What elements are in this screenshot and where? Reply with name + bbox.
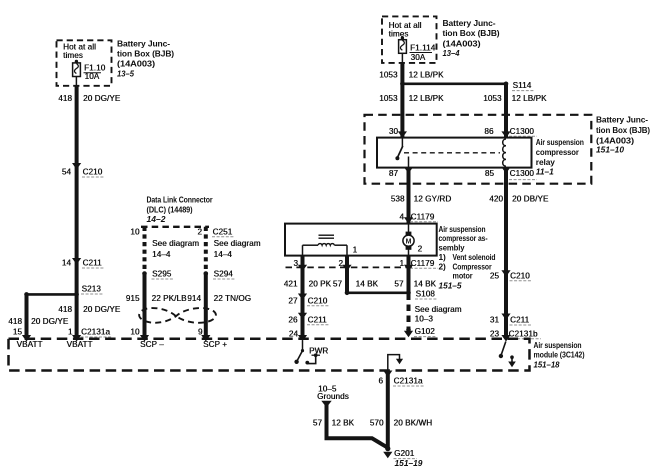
label Hot at all times bbox=[63, 42, 96, 60]
svg-text:C211: C211 bbox=[510, 316, 530, 325]
value label 57 14 BK (right) bbox=[394, 280, 436, 289]
svg-text:12 LB/PK: 12 LB/PK bbox=[409, 71, 444, 80]
vent solenoid coil L1 bbox=[303, 244, 348, 246]
svg-text:151–19: 151–19 bbox=[395, 458, 423, 468]
switch inside module at pin 24 bbox=[294, 341, 304, 364]
label See diagram 14-4 (right) bbox=[214, 239, 261, 259]
svg-text:23: 23 bbox=[490, 329, 500, 338]
svg-text:Battery Junc-: Battery Junc- bbox=[443, 18, 496, 28]
svg-text:S108: S108 bbox=[416, 290, 436, 299]
svg-text:22 TN/OG: 22 TN/OG bbox=[214, 294, 252, 303]
svg-text:11–1: 11–1 bbox=[536, 167, 554, 177]
value label 418 20 DG/YE (below S213) bbox=[58, 305, 121, 314]
svg-text:13–5: 13–5 bbox=[117, 69, 134, 79]
ground G201 bbox=[383, 446, 423, 468]
wire: solenoid right leg to pin 2 bbox=[346, 245, 348, 255]
value label 421 20 PK bbox=[284, 280, 332, 289]
svg-text:14–2: 14–2 bbox=[147, 214, 166, 224]
svg-text:2: 2 bbox=[197, 227, 202, 236]
relay mechanical link (dashed) bbox=[404, 152, 500, 154]
switch inside module at pin 23 bbox=[499, 342, 506, 359]
pin 6 connector C2131a out of module bbox=[378, 371, 425, 387]
wire: S108 to ground G102 (dashed) bbox=[407, 294, 411, 330]
svg-text:VBATT: VBATT bbox=[17, 340, 43, 349]
svg-text:C1179: C1179 bbox=[411, 212, 435, 221]
svg-text:2: 2 bbox=[338, 259, 343, 268]
svg-text:151–10: 151–10 bbox=[596, 144, 624, 154]
pin 1 connector C2131a into module bbox=[68, 328, 112, 342]
relay coil bbox=[503, 139, 506, 166]
svg-text:20 DB/YE: 20 DB/YE bbox=[512, 194, 549, 203]
svg-text:C251: C251 bbox=[213, 227, 233, 236]
svg-text:570: 570 bbox=[370, 419, 384, 428]
relay switch contact bbox=[395, 138, 402, 161]
value label F1.10 / 10A bbox=[84, 64, 106, 82]
svg-text:10: 10 bbox=[130, 328, 140, 337]
wire 914 22 TN/OG bbox=[204, 274, 208, 339]
internal wire hook to pin 6 bbox=[388, 355, 403, 371]
svg-text:times: times bbox=[389, 29, 409, 38]
svg-text:C1179: C1179 bbox=[411, 259, 435, 268]
svg-text:1053: 1053 bbox=[483, 94, 502, 103]
svg-text:sembly: sembly bbox=[439, 243, 465, 253]
pin 85 connector C1300 bbox=[485, 167, 537, 180]
pin 24 into module bbox=[289, 329, 307, 341]
motor M: compressor motor bbox=[403, 224, 414, 256]
svg-text:SCP –: SCP – bbox=[140, 340, 164, 349]
svg-text:14 BK: 14 BK bbox=[414, 280, 437, 289]
value label F1.114 / 30A bbox=[410, 43, 436, 62]
svg-text:86: 86 bbox=[484, 127, 494, 136]
svg-text:S295: S295 bbox=[152, 270, 172, 279]
wire: S213 branch horizontal bbox=[27, 293, 77, 296]
value label 914 22 TN/OG bbox=[187, 294, 251, 303]
svg-text:26: 26 bbox=[288, 315, 298, 324]
svg-text:G102: G102 bbox=[415, 327, 436, 336]
pin 15 into module bbox=[13, 328, 31, 342]
svg-text:20 PK: 20 PK bbox=[309, 280, 332, 289]
svg-text:tion Box (BJB): tion Box (BJB) bbox=[117, 49, 174, 59]
value label 915 22 PK/LB bbox=[126, 294, 187, 303]
svg-text:6: 6 bbox=[378, 377, 383, 386]
terminal arrow inside module near pin 23 bbox=[508, 355, 516, 367]
connector C1179 dashed bus bbox=[286, 266, 415, 268]
svg-text:10–3: 10–3 bbox=[415, 315, 434, 324]
value label 418 20 DG/YE bbox=[58, 94, 121, 103]
svg-text:(14A003): (14A003) bbox=[117, 59, 155, 69]
splice S294 bbox=[204, 270, 237, 280]
svg-text:914: 914 bbox=[187, 294, 201, 303]
svg-text:Battery Junc-: Battery Junc- bbox=[596, 115, 648, 125]
svg-text:See diagram: See diagram bbox=[214, 239, 261, 248]
svg-text:S114: S114 bbox=[513, 81, 532, 90]
svg-text:12 LB/PK: 12 LB/PK bbox=[512, 94, 547, 103]
label See diagram 14-4 (left) bbox=[152, 239, 199, 259]
svg-text:compressor: compressor bbox=[536, 147, 580, 157]
wire 538 12 GY/RD bbox=[407, 170, 411, 224]
svg-text:14: 14 bbox=[62, 259, 72, 268]
svg-text:418: 418 bbox=[8, 317, 22, 326]
wire 418 20 DG/YE (branch to pin 15) bbox=[25, 294, 29, 338]
pin 1 of C1179 bbox=[399, 259, 438, 271]
svg-text:57: 57 bbox=[333, 280, 343, 289]
node: branch corner bbox=[24, 292, 29, 297]
svg-text:2: 2 bbox=[418, 245, 423, 254]
svg-text:57: 57 bbox=[313, 419, 323, 428]
svg-text:Grounds: Grounds bbox=[317, 392, 349, 401]
svg-text:12 LB/PK: 12 LB/PK bbox=[409, 94, 444, 103]
svg-text:C2131b: C2131b bbox=[509, 329, 538, 338]
svg-text:31: 31 bbox=[490, 316, 500, 325]
splice S108 bbox=[406, 290, 438, 300]
value label 570 20 BK/WH bbox=[370, 419, 432, 428]
air suspension module dashed box bbox=[9, 339, 530, 371]
svg-text:tion Box (BJB): tion Box (BJB) bbox=[596, 125, 650, 135]
svg-text:151–18: 151–18 bbox=[534, 359, 560, 369]
fuse box F1.114: Battery Junction Box dashed outline bbox=[382, 16, 437, 63]
svg-text:module (3C142): module (3C142) bbox=[534, 350, 585, 360]
wire: DLC right dashed bbox=[204, 227, 208, 274]
label Hot at all times bbox=[389, 21, 422, 39]
svg-text:Air suspension: Air suspension bbox=[536, 137, 584, 147]
svg-text:C210: C210 bbox=[308, 296, 328, 305]
vent solenoid core lines bbox=[319, 235, 335, 238]
pin 86 connector C1300 bbox=[484, 127, 537, 138]
pin 87 of relay bbox=[389, 167, 413, 178]
wire: DLC top dashed bus bbox=[141, 226, 209, 228]
node: pin2 wire junction bbox=[345, 291, 350, 296]
wire 1053 12 LB/PK (fuse to S114) bbox=[400, 63, 404, 84]
wire 915 22 PK/LB bbox=[143, 274, 147, 339]
svg-text:SCP +: SCP + bbox=[203, 340, 227, 349]
pin 9 into module bbox=[198, 328, 211, 342]
svg-text:C211: C211 bbox=[83, 259, 103, 268]
pin 30 of relay bbox=[389, 127, 407, 138]
svg-text:4: 4 bbox=[399, 212, 404, 221]
svg-text:tion Box (BJB): tion Box (BJB) bbox=[443, 28, 500, 38]
svg-text:418: 418 bbox=[58, 94, 72, 103]
connector C210 pin 25 bbox=[490, 270, 532, 281]
svg-text:C1300: C1300 bbox=[510, 127, 535, 136]
fuse F1.114 bbox=[399, 38, 407, 53]
svg-text:See diagram: See diagram bbox=[415, 305, 462, 314]
svg-text:PWR: PWR bbox=[309, 346, 328, 355]
svg-text:10A: 10A bbox=[85, 72, 100, 81]
wire 418 20 DG/YE (main left vertical) bbox=[75, 86, 79, 295]
svg-text:1053: 1053 bbox=[379, 94, 398, 103]
svg-text:151–5: 151–5 bbox=[439, 281, 462, 291]
svg-text:20 DG/YE: 20 DG/YE bbox=[83, 305, 121, 314]
svg-text:12 BK: 12 BK bbox=[332, 419, 355, 428]
svg-text:2): 2) bbox=[439, 261, 447, 271]
svg-text:1053: 1053 bbox=[379, 71, 398, 80]
label Air suspension module (3C142) 151-18 bbox=[534, 340, 585, 369]
svg-text:22 PK/LB: 22 PK/LB bbox=[152, 294, 187, 303]
connector C211 pin 14 bbox=[62, 258, 104, 268]
svg-text:3: 3 bbox=[293, 259, 298, 268]
wire 418 20 DG/YE (below S213) bbox=[75, 294, 79, 338]
svg-text:1: 1 bbox=[353, 245, 358, 254]
wire: DLC left dashed bbox=[143, 227, 147, 274]
value label 57 14 BK (middle) bbox=[333, 280, 379, 289]
svg-text:times: times bbox=[63, 51, 83, 60]
svg-text:(14A003): (14A003) bbox=[443, 38, 481, 48]
svg-text:S294: S294 bbox=[214, 270, 234, 279]
svg-text:1: 1 bbox=[68, 328, 73, 337]
relay U1: air suspension compressor relay box bbox=[377, 138, 532, 168]
svg-text:M: M bbox=[406, 239, 412, 246]
value label 538 12 GY/RD bbox=[391, 194, 452, 203]
label Battery Junction Box (BJB) (14A003) 13-5 bbox=[117, 38, 174, 78]
node: fuse F1.10 top terminal bbox=[75, 60, 78, 63]
svg-text:20 DG/YE: 20 DG/YE bbox=[83, 94, 121, 103]
fuse box F1.10: Battery Junction Box dashed outline bbox=[57, 40, 112, 86]
wire: relay pin 87 stub bbox=[408, 157, 410, 168]
svg-text:30: 30 bbox=[389, 127, 399, 136]
svg-text:20 DG/YE: 20 DG/YE bbox=[31, 317, 69, 326]
svg-text:C2131a: C2131a bbox=[394, 377, 423, 386]
wire 57 14 BK (pin 2 to S108) bbox=[345, 256, 349, 293]
label See diagram 10-3 bbox=[415, 305, 462, 324]
svg-text:motor: motor bbox=[453, 271, 474, 281]
value label 1053 12 LB/PK (right) bbox=[483, 94, 547, 103]
svg-text:27: 27 bbox=[288, 296, 298, 305]
ground G102 bbox=[404, 327, 437, 337]
label Battery Junction Box (BJB) (14A003) 151-10 bbox=[596, 115, 650, 155]
svg-text:30A: 30A bbox=[411, 53, 426, 62]
wire 57 14 BK (pin 1 to S108) bbox=[407, 256, 411, 294]
connector C210 pin 54 bbox=[62, 163, 104, 177]
pin 3 of C1179 bbox=[293, 259, 307, 271]
svg-text:15: 15 bbox=[13, 328, 23, 337]
wire 1053 12 LB/PK (S114 to relay pin 86) bbox=[504, 84, 508, 138]
svg-text:C210: C210 bbox=[83, 168, 103, 177]
label Air suspension compressor relay 11-1 bbox=[536, 137, 584, 177]
svg-text:C1300: C1300 bbox=[510, 169, 535, 178]
splice S114 bbox=[400, 81, 534, 90]
svg-text:538: 538 bbox=[391, 194, 405, 203]
wire 421 20 PK bbox=[301, 256, 305, 338]
wire: fuse F1.10 output inside box bbox=[75, 77, 77, 86]
label 10-5 Grounds bbox=[317, 385, 349, 401]
svg-text:F1.10: F1.10 bbox=[84, 64, 106, 73]
connector C211 pin 26 bbox=[288, 313, 329, 325]
svg-text:420: 420 bbox=[489, 194, 503, 203]
wire: fuse F1.114 output inside box bbox=[401, 53, 403, 62]
svg-text:57: 57 bbox=[394, 280, 404, 289]
wire: link to S108 bbox=[347, 291, 409, 294]
svg-text:C211: C211 bbox=[308, 315, 328, 324]
svg-text:915: 915 bbox=[126, 294, 140, 303]
svg-text:20 BK/WH: 20 BK/WH bbox=[394, 419, 433, 428]
source arrow from 10-5 Grounds bbox=[321, 401, 331, 408]
svg-text:10: 10 bbox=[130, 227, 140, 236]
svg-text:87: 87 bbox=[389, 169, 399, 178]
svg-text:Battery Junc-: Battery Junc- bbox=[117, 38, 170, 48]
svg-text:12 GY/RD: 12 GY/RD bbox=[414, 194, 452, 203]
svg-text:418: 418 bbox=[58, 305, 72, 314]
svg-text:(DLC) (14489): (DLC) (14489) bbox=[147, 205, 193, 215]
value label 418 20 DG/YE (branch) bbox=[8, 317, 69, 326]
svg-text:relay: relay bbox=[536, 157, 555, 167]
svg-text:14–4: 14–4 bbox=[152, 250, 171, 259]
twisted pair symbol bbox=[139, 308, 216, 323]
value label 57 12 BK bbox=[313, 419, 355, 428]
value label 420 20 DB/YE bbox=[489, 194, 549, 203]
svg-text:See diagram: See diagram bbox=[152, 239, 199, 248]
Battery Junction Box dashed outline around relay bbox=[365, 115, 592, 184]
wire 57 12 BK bbox=[327, 405, 388, 448]
pin 10 into module bbox=[130, 328, 149, 342]
wire 420 20 DB/YE bbox=[504, 170, 508, 338]
wire 570 20 BK/WH bbox=[386, 371, 390, 449]
pin 4 connector C1179 bbox=[399, 212, 438, 224]
svg-text:VBATT: VBATT bbox=[67, 340, 93, 349]
air suspension compressor assembly box bbox=[285, 224, 437, 256]
svg-text:14 BK: 14 BK bbox=[356, 280, 379, 289]
svg-text:85: 85 bbox=[485, 169, 495, 178]
value label 1053 12 LB/PK (left) bbox=[379, 94, 444, 103]
svg-text:C210: C210 bbox=[510, 271, 530, 280]
label Battery Junction Box (BJB) (14A003) 13-4 bbox=[443, 18, 500, 58]
pin 23 connector C2131b into module bbox=[490, 329, 541, 341]
svg-text:F1.114: F1.114 bbox=[410, 43, 436, 52]
node: fuse F1.114 top terminal bbox=[401, 36, 404, 39]
wire 1053 12 LB/PK (S114 to relay pin 30) bbox=[400, 84, 404, 138]
fuse F1.10 bbox=[73, 61, 81, 76]
pin 2 connector C251 (DLC top right) bbox=[197, 227, 235, 236]
svg-text:Air suspension: Air suspension bbox=[534, 340, 582, 350]
splice S295 bbox=[142, 270, 174, 280]
svg-text:Data Link Connector: Data Link Connector bbox=[147, 195, 214, 205]
wire: solenoid left leg to pin 3 bbox=[302, 245, 304, 255]
pin 2 of C1179 bbox=[338, 259, 351, 271]
svg-text:1: 1 bbox=[399, 259, 404, 268]
svg-text:S213: S213 bbox=[82, 285, 102, 294]
svg-text:54: 54 bbox=[62, 168, 72, 177]
svg-text:25: 25 bbox=[490, 271, 500, 280]
svg-text:C2131a: C2131a bbox=[81, 328, 110, 337]
PWR terminal hook bbox=[305, 353, 320, 364]
label Air suspension compressor assembly 1) Vent solenoid 2) Compressor motor 151-5 bbox=[439, 224, 496, 291]
svg-text:13–4: 13–4 bbox=[443, 48, 460, 58]
value label 1053 12 LB/PK bbox=[379, 71, 444, 80]
label Data Link Connector (DLC) (14489) 14-2 bbox=[147, 195, 214, 225]
connector C211 pin 31 bbox=[490, 314, 532, 326]
splice S213 bbox=[74, 285, 103, 297]
svg-text:14–4: 14–4 bbox=[214, 250, 233, 259]
svg-text:24: 24 bbox=[289, 329, 299, 338]
svg-text:421: 421 bbox=[284, 280, 298, 289]
connector C210 pin 27 bbox=[288, 294, 329, 306]
